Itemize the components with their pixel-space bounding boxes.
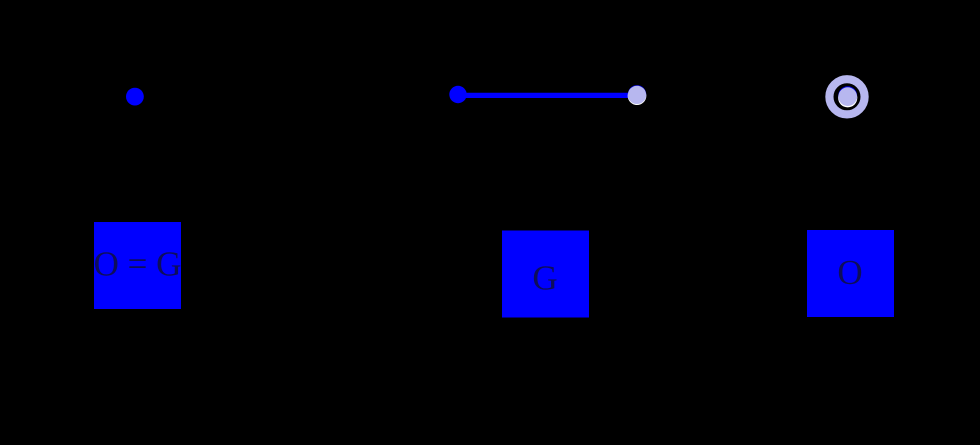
svg-text:O = G: O = G: [94, 245, 182, 284]
svg-text:G: G: [532, 259, 557, 298]
svg-text:O: O: [837, 253, 862, 292]
